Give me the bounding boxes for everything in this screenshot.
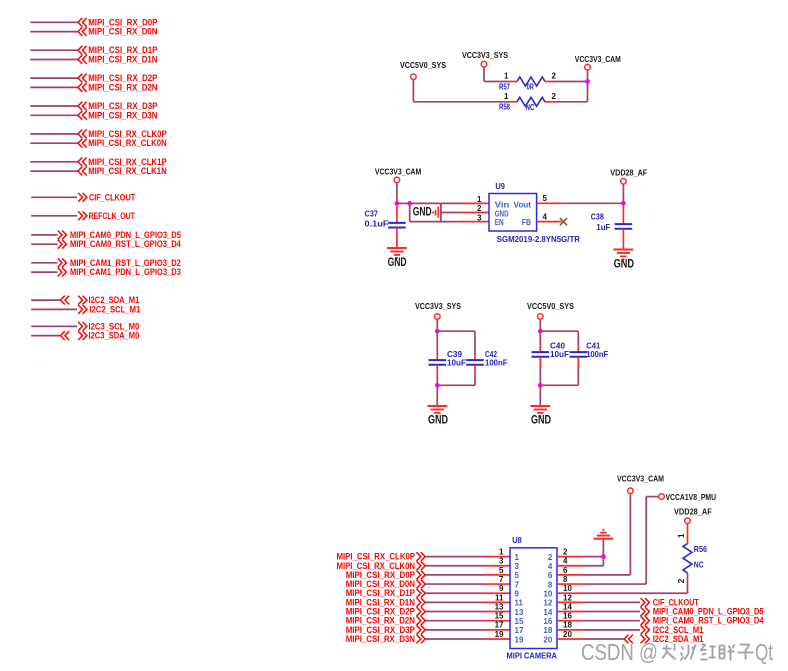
svg-text:5: 5	[499, 566, 504, 575]
svg-text:R56: R56	[694, 544, 707, 554]
capacitor C39	[429, 331, 467, 385]
wire net VCCA1V8_PMU	[645, 497, 647, 584]
wire U8 pin 15	[426, 620, 484, 622]
port MIPI_CAM0_PDN_L_GPIO3_D5	[641, 607, 765, 618]
svg-text:12: 12	[543, 599, 552, 608]
port MIPI_CAM0_PDN_L_GPIO3_D5	[58, 230, 182, 241]
svg-text:3: 3	[477, 213, 482, 222]
svg-text:I2C2_SCL_M1: I2C2_SCL_M1	[90, 304, 141, 315]
port MIPI_CSI_RX_D2N	[78, 82, 158, 93]
svg-text:EN: EN	[495, 218, 504, 227]
wire U8 pin 18	[557, 629, 584, 631]
svg-text:6: 6	[548, 571, 553, 580]
wire U8 pin 8	[557, 583, 584, 585]
svg-text:19: 19	[515, 635, 524, 644]
power port VCCA1V8_PMU	[659, 492, 716, 502]
port MIPI_CAM1_RST_L_GPIO3_D2	[58, 258, 181, 269]
svg-text:MIPI CAMERA: MIPI CAMERA	[507, 651, 557, 661]
svg-text:R58: R58	[499, 102, 510, 112]
port MIPI_CSI_RX_CLK0N	[337, 561, 426, 572]
no-ERC marker	[624, 635, 633, 644]
wire	[30, 77, 78, 79]
svg-text:U9: U9	[495, 181, 505, 191]
svg-text:VCC3V3_SYS: VCC3V3_SYS	[462, 50, 508, 60]
junction	[538, 329, 543, 334]
svg-text:FB: FB	[522, 218, 531, 227]
wire	[31, 234, 57, 236]
ground	[427, 406, 447, 416]
wire	[30, 21, 78, 23]
port MIPI_CSI_RX_D1P	[78, 45, 158, 56]
svg-text:I2C3_SDA_M0: I2C3_SDA_M0	[89, 331, 140, 342]
watermark CSDN	[581, 639, 773, 665]
svg-text:CIF_CLKOUT: CIF_CLKOUT	[89, 192, 135, 203]
wire	[539, 319, 541, 331]
svg-text:11: 11	[515, 599, 524, 608]
port MIPI_CSI_RX_D0N	[346, 579, 426, 590]
svg-text:10uF: 10uF	[447, 357, 466, 367]
svg-text:I2C2_SDA_M1: I2C2_SDA_M1	[653, 634, 704, 645]
resistor R56	[677, 524, 707, 584]
wire U9 pin 2	[441, 212, 462, 214]
junction	[435, 383, 440, 388]
power port VCC3V3_CAM	[375, 166, 421, 182]
wire	[436, 319, 438, 331]
wire	[413, 101, 509, 103]
svg-text:1uF: 1uF	[596, 222, 610, 232]
port MIPI_CSI_RX_D2P	[78, 73, 158, 84]
port MIPI_CSI_RX_D0N	[78, 27, 158, 38]
wire	[687, 579, 689, 593]
power port VCC3V3_CAM	[617, 474, 664, 494]
port I2C2_SCL_M1	[641, 625, 704, 636]
svg-text:20: 20	[563, 630, 572, 639]
wire	[30, 49, 78, 51]
svg-text:8: 8	[548, 580, 553, 589]
port MIPI_CSI_RX_D1N	[346, 597, 426, 608]
port MIPI_CSI_RX_D3N	[78, 110, 158, 121]
wire	[30, 31, 78, 33]
port MIPI_CSI_RX_CLK1P	[78, 157, 167, 168]
no-ERC marker	[61, 331, 70, 340]
svg-text:19: 19	[495, 630, 504, 639]
svg-text:100nF: 100nF	[485, 357, 508, 367]
power port VCC3V3_CAM	[575, 54, 621, 70]
wire	[30, 170, 78, 172]
ground	[530, 406, 550, 416]
wire	[30, 86, 78, 88]
ground	[387, 248, 407, 258]
svg-text:100nF: 100nF	[586, 349, 608, 359]
capacitor C38	[591, 206, 633, 250]
wire U8 pin 19	[426, 638, 484, 640]
port MIPI_CSI_RX_D3P	[78, 101, 158, 112]
wire	[30, 161, 78, 163]
wire	[540, 384, 578, 386]
svg-text:0.1uF: 0.1uF	[365, 219, 389, 229]
svg-text:3: 3	[515, 562, 520, 571]
port MIPI_CSI_RX_D0P	[78, 17, 158, 28]
port MIPI_CAM0_RST_L_GPIO3_D4	[641, 616, 765, 627]
svg-text:15: 15	[495, 612, 504, 621]
svg-text:GND: GND	[413, 207, 432, 219]
power port VCC5V0_SYS	[400, 60, 446, 79]
svg-text:10: 10	[543, 590, 552, 599]
svg-text:15: 15	[515, 617, 524, 626]
wire U8 pin 3	[426, 565, 484, 567]
svg-text:5: 5	[515, 571, 520, 580]
wire	[409, 203, 411, 221]
junction	[601, 554, 606, 559]
svg-text:SGM2019-2.8YN5G/TR: SGM2019-2.8YN5G/TR	[497, 234, 580, 244]
svg-text:2: 2	[563, 548, 568, 557]
port I2C2_SDA_M1	[78, 295, 140, 306]
svg-text:1: 1	[504, 92, 509, 101]
svg-text:7: 7	[515, 580, 520, 589]
svg-text:Qt: Qt	[755, 639, 773, 665]
port MIPI_CSI_RX_CLK0P	[337, 552, 426, 563]
wire net VCC3V3_CAM	[629, 494, 631, 575]
wire	[30, 142, 78, 144]
svg-text:2: 2	[552, 72, 557, 81]
wire U8 pin 16	[557, 620, 584, 622]
port MIPI_CSI_RX_CLK0N	[78, 138, 167, 149]
power port VCC3V3_SYS	[462, 50, 508, 67]
svg-text:Vin: Vin	[495, 201, 510, 210]
port I2C3_SCL_M0	[78, 321, 139, 332]
wire	[440, 203, 442, 221]
junction	[407, 201, 412, 206]
svg-text:GND: GND	[428, 415, 448, 427]
svg-text:16: 16	[563, 612, 572, 621]
wire	[31, 335, 60, 337]
junction node VIN	[395, 201, 400, 206]
svg-text:8: 8	[563, 575, 568, 584]
svg-text:MIPI_CSI_RX_D0N: MIPI_CSI_RX_D0N	[88, 27, 157, 38]
svg-text:17: 17	[495, 621, 504, 630]
port MIPI_CSI_RX_CLK1N	[78, 166, 167, 177]
svg-text:14: 14	[543, 608, 552, 617]
svg-text:1: 1	[504, 72, 509, 81]
svg-text:14: 14	[563, 602, 572, 611]
svg-text:20: 20	[543, 635, 552, 644]
resistor R57	[499, 72, 557, 92]
svg-text:7: 7	[499, 575, 504, 584]
wire U9 pin 5	[537, 202, 564, 204]
svg-text:MIPI_CSI_RX_D2N: MIPI_CSI_RX_D2N	[88, 82, 157, 93]
svg-text:3: 3	[499, 557, 504, 566]
wire	[474, 331, 476, 354]
junction	[585, 79, 590, 84]
power port VCC5V0_SYS	[527, 301, 574, 319]
wire U8 pin 11	[426, 601, 484, 603]
no-connect X	[560, 218, 567, 225]
power port VCC3V3_SYS	[415, 301, 461, 319]
wire U9 pin 3	[410, 221, 462, 223]
wire	[31, 299, 60, 301]
svg-text:C37: C37	[365, 208, 379, 218]
wire	[30, 133, 78, 135]
svg-text:18: 18	[563, 621, 572, 630]
wire	[540, 330, 578, 332]
wire U8 pin 10	[557, 592, 584, 594]
power port VDD28_AF	[610, 167, 647, 184]
wire	[31, 196, 77, 198]
port MIPI_CAM0_RST_L_GPIO3_D4	[58, 239, 182, 250]
wire	[484, 81, 509, 83]
svg-text:R57: R57	[499, 81, 510, 91]
svg-text:VCC3V3_SYS: VCC3V3_SYS	[415, 301, 461, 311]
wire U8 pin 20	[557, 638, 584, 640]
svg-text:16: 16	[543, 617, 552, 626]
wire	[31, 308, 77, 310]
wire U8 pin 17	[426, 629, 484, 631]
svg-text:9: 9	[515, 590, 520, 599]
svg-text:2: 2	[677, 578, 686, 583]
port MIPI_CSI_RX_D0P	[346, 570, 426, 581]
svg-text:VCC3V3_CAM: VCC3V3_CAM	[617, 474, 664, 484]
capacitor C42	[466, 349, 507, 385]
svg-text:MIPI_CSI_RX_D1N: MIPI_CSI_RX_D1N	[88, 55, 157, 66]
wire U8 pin 9	[426, 592, 484, 594]
svg-text:12: 12	[563, 593, 572, 602]
wire U8 pin 2	[557, 556, 584, 558]
wire	[622, 184, 624, 203]
svg-text:MIPI_CSI_RX_D3N: MIPI_CSI_RX_D3N	[88, 110, 157, 121]
port MIPI_CSI_RX_D2P	[346, 607, 426, 618]
svg-text:MIPI_CAM1_PDN_L_GPIO3_D3: MIPI_CAM1_PDN_L_GPIO3_D3	[70, 267, 181, 278]
svg-text:MIPI_CAM0_RST_L_GPIO3_D4: MIPI_CAM0_RST_L_GPIO3_D4	[70, 239, 181, 250]
svg-text:Vout: Vout	[514, 201, 532, 210]
svg-text:9: 9	[499, 584, 504, 593]
svg-text:VCCA1V8_PMU: VCCA1V8_PMU	[666, 492, 717, 502]
junction	[621, 201, 626, 206]
port MIPI_CSI_RX_CLK0P	[78, 129, 167, 140]
svg-text:MIPI_CSI_RX_CLK0N: MIPI_CSI_RX_CLK0N	[88, 138, 167, 149]
svg-text:0R: 0R	[527, 81, 534, 91]
svg-text:6: 6	[563, 566, 568, 575]
capacitor C41	[570, 340, 609, 385]
svg-text:13: 13	[495, 602, 504, 611]
wire	[602, 539, 604, 566]
svg-text:5: 5	[543, 194, 548, 203]
wire U8 pin 12	[557, 601, 584, 603]
wire	[587, 70, 589, 102]
svg-text:11: 11	[495, 593, 504, 602]
svg-text:4: 4	[543, 213, 548, 222]
wire	[437, 384, 475, 386]
connector U8 MIPI CAMERA	[507, 535, 558, 661]
port MIPI_CSI_RX_D3N	[346, 634, 426, 645]
wire	[483, 67, 485, 82]
wire U8 pin 5	[426, 574, 484, 576]
svg-text:VDD28_AF: VDD28_AF	[610, 167, 647, 177]
wire	[31, 243, 57, 245]
svg-text:MIPI_CSI_RX_D3N: MIPI_CSI_RX_D3N	[346, 634, 415, 645]
wire	[396, 183, 398, 204]
svg-text:1: 1	[477, 195, 482, 204]
svg-text:18: 18	[543, 626, 552, 635]
wire	[554, 101, 588, 103]
no-ERC marker	[61, 296, 70, 305]
wire	[539, 385, 541, 406]
junction	[538, 383, 543, 388]
wire U8 pin 7	[426, 583, 484, 585]
port MIPI_CSI_RX_D2N	[346, 616, 426, 627]
wire	[30, 114, 78, 116]
svg-text:NC: NC	[526, 102, 535, 112]
port MIPI_CAM1_PDN_L_GPIO3_D3	[58, 267, 181, 278]
svg-text:CSDN @: CSDN @	[581, 639, 658, 665]
port MIPI_CSI_RX_D1P	[346, 588, 426, 599]
junction	[435, 329, 440, 334]
svg-text:1: 1	[515, 553, 520, 562]
port I2C3_SDA_M0	[78, 331, 139, 342]
wire U9 pin 4	[537, 221, 562, 223]
svg-text:4: 4	[548, 562, 553, 571]
svg-text:REFCLK_OUT: REFCLK_OUT	[89, 211, 135, 222]
svg-text:NC: NC	[694, 560, 704, 570]
svg-text:1: 1	[677, 533, 686, 538]
ground	[614, 250, 634, 260]
svg-text:VCC3V3_CAM: VCC3V3_CAM	[375, 166, 421, 176]
svg-text:17: 17	[515, 626, 524, 635]
svg-text:2: 2	[477, 204, 482, 213]
resistor R58	[499, 92, 557, 112]
wire	[30, 59, 78, 61]
port CIF_CLKOUT	[641, 597, 699, 608]
port MIPI_CSI_RX_D3P	[346, 625, 426, 636]
port MIPI_CSI_RX_D1N	[78, 55, 158, 66]
wire U9 pin 1	[410, 202, 462, 204]
wire	[30, 105, 78, 107]
wire	[554, 81, 588, 83]
wire	[437, 330, 475, 332]
port CIF_CLKOUT	[78, 192, 135, 203]
port REFCLK_OUT	[78, 211, 135, 222]
capacitor C37	[365, 206, 406, 248]
svg-text:VCC5V0_SYS: VCC5V0_SYS	[527, 301, 574, 311]
svg-text:10: 10	[563, 584, 572, 593]
svg-text:1: 1	[499, 548, 504, 557]
power port GND	[413, 206, 439, 218]
wire U8 pin 4	[557, 565, 584, 567]
wire	[436, 385, 438, 406]
wire	[31, 271, 57, 273]
wire U8 pin 6	[557, 574, 584, 576]
svg-text:4: 4	[563, 557, 568, 566]
port I2C2_SCL_M1	[78, 304, 141, 315]
wire U8 pin 1	[426, 556, 484, 558]
ground	[594, 530, 614, 539]
port I2C2_SDA_M1	[641, 634, 704, 645]
svg-text:GND: GND	[388, 257, 407, 269]
wire	[31, 215, 77, 217]
svg-text:C38: C38	[591, 212, 604, 222]
wire	[31, 262, 57, 264]
svg-text:MIPI_CSI_RX_CLK1N: MIPI_CSI_RX_CLK1N	[88, 166, 167, 177]
svg-text:GND: GND	[531, 415, 551, 427]
op-amp U9 SGM2019	[477, 181, 580, 244]
capacitor C40	[532, 331, 570, 385]
wire	[412, 80, 414, 102]
svg-text:13: 13	[515, 608, 524, 617]
power port VDD28_AF	[674, 507, 712, 524]
svg-text:2: 2	[548, 553, 553, 562]
svg-text:VCC5V0_SYS: VCC5V0_SYS	[400, 60, 446, 70]
wire	[397, 202, 410, 204]
wire U8 pin 14	[557, 611, 584, 613]
svg-text:VDD28_AF: VDD28_AF	[674, 507, 712, 517]
svg-text:VCC3V3_CAM: VCC3V3_CAM	[575, 54, 621, 64]
wire	[577, 331, 579, 345]
svg-text:2: 2	[552, 92, 557, 101]
svg-text:10uF: 10uF	[550, 349, 569, 359]
wire U8 pin 13	[426, 611, 484, 613]
svg-text:U8: U8	[512, 535, 522, 545]
svg-text:GND: GND	[614, 259, 635, 271]
wire	[31, 325, 77, 327]
